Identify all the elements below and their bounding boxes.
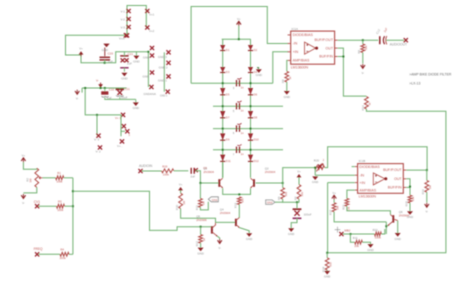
node X FREQ <box>34 247 43 256</box>
transistor Q6 <box>388 210 410 226</box>
potentiometer R2 <box>25 168 42 187</box>
svg-text:D1: D1 <box>226 48 230 52</box>
svg-text:D9: D9 <box>226 138 230 142</box>
svg-text:D10: D10 <box>254 138 260 142</box>
svg-text:V+: V+ <box>179 183 183 187</box>
svg-text:GND: GND <box>367 248 373 252</box>
svg-text:V+: V+ <box>332 191 336 195</box>
capacitor C6 <box>233 123 244 135</box>
svg-text:100k: 100k <box>57 208 64 212</box>
svg-text:R4: R4 <box>60 248 64 252</box>
node X V-1 <box>121 9 131 14</box>
capacitor C11 electrolytic <box>116 87 130 99</box>
svg-text:1M: 1M <box>202 201 206 206</box>
node X GND 2 <box>159 61 171 70</box>
svg-text:D6: D6 <box>254 92 258 96</box>
IC1B pin BUF/FIN <box>388 186 406 190</box>
svg-text:GN1: GN1 <box>212 198 218 202</box>
wire q2 base <box>256 182 283 184</box>
svg-text:GND: GND <box>312 180 318 184</box>
svg-text:100k: 100k <box>56 180 63 184</box>
ground R12 <box>197 248 203 256</box>
resistor R19 <box>162 164 174 176</box>
resistor R3 <box>57 200 65 212</box>
junction Q1 base <box>199 182 201 184</box>
wire ladder left column <box>222 39 224 178</box>
svg-text:GND: GND <box>324 275 330 279</box>
node X GNDA2 <box>150 53 154 57</box>
ground stub at x136 <box>133 52 139 64</box>
svg-text:V+ 1: V+ 1 <box>115 116 121 120</box>
svg-text:1M: 1M <box>29 178 33 183</box>
svg-text:-IN: -IN <box>293 42 298 46</box>
IC1A pin BUF/FIN <box>319 55 337 59</box>
wire R11 to flag <box>200 202 208 210</box>
wire V+ stub bus <box>85 88 121 115</box>
svg-text:R16: R16 <box>421 189 425 195</box>
wire GND column B <box>163 52 165 91</box>
wire r15 gnd <box>409 203 411 211</box>
wire emitter rail <box>223 188 251 194</box>
svg-text:DIODE/BIAS: DIODE/BIAS <box>359 165 380 169</box>
wire trimmer run <box>283 147 427 183</box>
svg-text:V+1: V+1 <box>149 13 155 17</box>
junction R9 <box>362 39 364 41</box>
svg-text:AMP/BIAS: AMP/BIAS <box>359 188 376 192</box>
svg-text:GND: GND <box>133 106 139 110</box>
transistor Q1 <box>203 167 223 189</box>
resistor R10 <box>175 193 186 210</box>
wire V+ stem <box>238 26 240 39</box>
resistor R9 <box>357 40 368 53</box>
svg-text:200k: 200k <box>60 256 67 260</box>
svg-text:1M: 1M <box>428 185 432 190</box>
svg-text:>LX-13: >LX-13 <box>409 81 420 85</box>
supply V- chevron left <box>75 90 79 101</box>
ground R23 <box>367 244 373 252</box>
svg-text:LM13600N: LM13600N <box>359 194 377 198</box>
svg-text:10uF: 10uF <box>121 95 128 99</box>
ground GND above C20 <box>102 44 110 57</box>
svg-text:R6: R6 <box>293 196 297 200</box>
capacitor C12 output <box>375 27 389 45</box>
wire rung1 <box>191 52 288 83</box>
resistor R21 <box>341 199 350 212</box>
svg-text:GND: GND <box>256 73 262 77</box>
IC1A pin BUF/P.OUT <box>315 38 338 42</box>
ground rail right <box>133 99 139 110</box>
wire q5 emitter <box>217 236 219 239</box>
junction buf fin <box>342 56 344 58</box>
svg-text:R15: R15 <box>404 201 408 207</box>
wire amp/bias to R8 <box>286 60 289 71</box>
junction stub bus <box>84 87 98 116</box>
wire q6 emitter <box>386 221 397 233</box>
svg-text:CV1: CV1 <box>34 200 40 204</box>
svg-text:R8: R8 <box>281 79 285 83</box>
svg-text:V-: V- <box>425 210 428 214</box>
svg-text:2M: 2M <box>335 205 339 210</box>
svg-text:AMP/BIAS: AMP/BIAS <box>293 59 310 63</box>
wire ampbias b <box>347 190 355 198</box>
wire rung3 <box>213 128 283 130</box>
supply V+ divider <box>297 170 302 180</box>
diode D1 <box>220 45 230 52</box>
svg-text:C11: C11 <box>125 87 130 91</box>
resistor R4 <box>60 248 69 261</box>
wire r16 vminus <box>426 192 428 202</box>
wire OUT down chain <box>338 48 367 96</box>
wire R1 out <box>64 177 73 179</box>
wire rung2 <box>213 105 283 107</box>
ground q6 <box>394 233 400 241</box>
svg-text:V-: V- <box>96 78 99 82</box>
svg-text:56k: 56k <box>284 191 288 196</box>
wire feedback long <box>327 109 446 253</box>
svg-text:1n: 1n <box>241 152 245 156</box>
svg-text:BUF/FIN: BUF/FIN <box>319 55 333 59</box>
svg-text:D2: D2 <box>254 48 258 52</box>
IC1A part label <box>291 66 309 70</box>
wire r22 left <box>350 229 384 234</box>
IC1B pin DIODE/BIAS <box>355 165 381 169</box>
supply V+ symbol (input rail) <box>79 47 84 57</box>
ground R8 <box>284 91 290 99</box>
svg-text:+IN: +IN <box>359 181 365 185</box>
junction rung3 <box>222 128 252 130</box>
svg-text:2N3904: 2N3904 <box>203 170 214 174</box>
supply V+ ladder top <box>237 17 241 26</box>
supply V- arrow on row <box>96 78 103 87</box>
junction C20 tap <box>104 62 106 64</box>
wire cv1 <box>39 205 57 207</box>
wire IC1B out join <box>406 179 410 195</box>
wire audioin2 <box>174 170 189 172</box>
resistor R16 <box>421 170 432 194</box>
wire q4 collector <box>238 216 240 218</box>
node X AUDIOOUT <box>390 38 408 46</box>
svg-text:V-: V- <box>22 201 25 205</box>
diode D4 <box>248 67 258 74</box>
svg-text:GND 1: GND 1 <box>160 95 168 98</box>
svg-text:V-: V- <box>76 97 79 101</box>
junction gnd col <box>147 51 149 53</box>
IC1A pin +IN <box>288 50 299 54</box>
junction C10 top <box>104 87 106 89</box>
node X GND 1 <box>158 74 171 82</box>
svg-text:R14: R14 <box>361 105 365 111</box>
svg-text:V-: V- <box>218 246 221 250</box>
wire cap bottom rail <box>104 98 136 100</box>
svg-text:V-2: V-2 <box>121 18 126 22</box>
svg-text:2N3906: 2N3906 <box>196 218 207 222</box>
wire bufpout stub <box>406 169 427 171</box>
wire ctrl run <box>73 191 211 230</box>
svg-text:OUT: OUT <box>326 46 334 50</box>
junction rung2 <box>222 105 252 107</box>
svg-text:V+: V+ <box>79 47 83 51</box>
svg-text:1M: 1M <box>182 200 186 205</box>
node X GNDA1 <box>143 46 154 60</box>
wire IC1B -IN wire <box>315 174 355 176</box>
IC1B part label <box>359 194 377 198</box>
capacitor C5 <box>233 101 244 113</box>
svg-text:1n: 1n <box>241 131 245 135</box>
svg-text:R3: R3 <box>58 200 62 204</box>
resistor R11 bias <box>195 183 206 210</box>
resistor R1 <box>56 171 64 183</box>
node X V-2 <box>121 17 131 22</box>
junction bus1 <box>72 190 74 192</box>
net flag GN2 <box>266 200 283 205</box>
svg-text:C20: C20 <box>108 52 114 56</box>
supply V+ R10 <box>178 183 183 193</box>
svg-text:GND: GND <box>284 95 290 99</box>
wire wiper <box>43 177 56 179</box>
wire stub right <box>121 115 125 136</box>
svg-text:1uF: 1uF <box>108 59 113 63</box>
svg-text:GND: GND <box>197 251 203 255</box>
junction trimmer <box>314 167 316 169</box>
svg-text:C21: C21 <box>128 52 134 56</box>
diode D6 <box>248 88 258 96</box>
svg-text:D5: D5 <box>226 92 230 96</box>
junction bufpout <box>426 169 428 171</box>
op-amp IC1A box <box>291 27 335 64</box>
wire pot top <box>23 162 36 169</box>
svg-text:BUF/P.OUT: BUF/P.OUT <box>383 168 402 172</box>
svg-text:GND: GND <box>143 56 149 60</box>
capacitor C3 <box>233 78 244 90</box>
node X V-4 <box>94 134 101 142</box>
svg-text:V-1: V-1 <box>121 10 126 14</box>
wire r10 to q5 collector <box>181 209 216 223</box>
svg-text:D12: D12 <box>254 159 260 163</box>
resistor R23 20k <box>350 234 362 248</box>
svg-text:V- 3: V- 3 <box>94 138 100 142</box>
svg-text:100: 100 <box>240 198 244 203</box>
svg-text:GND: GND <box>121 77 127 81</box>
capacitor C13 divider <box>291 202 312 228</box>
junction rung4 <box>222 149 252 151</box>
resistor R8 <box>281 71 292 83</box>
wire trimmer gnd stub <box>314 168 316 176</box>
origin cross <box>335 227 341 233</box>
wire freq <box>39 253 60 255</box>
resistor R17 <box>329 200 340 215</box>
junction mb2 <box>349 233 351 235</box>
wire feedback loop top <box>191 7 288 84</box>
junction ladder top <box>238 38 240 40</box>
transistor Q5 <box>196 214 217 236</box>
transistor Q2 <box>250 167 275 189</box>
svg-text:R12: R12 <box>195 241 199 247</box>
transistor Q4 <box>220 208 240 228</box>
svg-text:FREQ: FREQ <box>34 247 43 251</box>
svg-text:D8: D8 <box>254 115 258 119</box>
svg-text:2N3904: 2N3904 <box>220 211 231 215</box>
supply V- pot <box>21 194 25 205</box>
svg-text:V-3: V-3 <box>121 26 126 30</box>
node X GNDA3 <box>143 70 155 78</box>
wire IC1B diode/bias stub <box>352 166 355 168</box>
svg-text:R5: R5 <box>277 196 281 200</box>
wire audioin <box>142 170 162 172</box>
svg-text:R21: R21 <box>341 204 345 210</box>
supply V+ R17 <box>332 191 336 200</box>
junction q2 base <box>282 182 284 184</box>
svg-text:R13: R13 <box>234 202 238 208</box>
svg-text:1uF: 1uF <box>127 62 132 66</box>
svg-text:220k: 220k <box>375 235 382 239</box>
svg-text:2N3906: 2N3906 <box>399 214 410 218</box>
diode D5 <box>220 88 230 96</box>
svg-text:100uF: 100uF <box>304 212 312 216</box>
wire r4 out <box>69 253 73 255</box>
svg-text:BUF/P.OUT: BUF/P.OUT <box>315 38 334 42</box>
node X V+5 <box>115 113 125 120</box>
node X V+6 <box>122 124 126 128</box>
node X V+4 <box>125 33 129 37</box>
svg-text:LM13600N: LM13600N <box>291 66 309 70</box>
resistor R5 <box>277 183 288 200</box>
svg-text:GND: GND <box>133 59 139 63</box>
title text <box>409 73 452 86</box>
diode D11 <box>220 155 231 163</box>
op-amp IC1B box <box>358 159 404 193</box>
op-amp IC1A triangle <box>305 42 319 54</box>
ground below C21 <box>121 73 127 81</box>
svg-text:+IN: +IN <box>293 50 299 54</box>
capacitor C9 input <box>190 166 207 178</box>
ground trimmer <box>312 176 318 184</box>
svg-text:500: 500 <box>328 262 332 267</box>
IC1A pin DIODE/BIAS <box>288 33 314 37</box>
supply V+ pot <box>21 153 25 162</box>
svg-text:C10: C10 <box>109 88 115 92</box>
svg-text:50k: 50k <box>364 45 368 50</box>
wire r10 top <box>180 190 182 193</box>
supply V- q5 <box>218 239 222 250</box>
wire V+ rail top-left loop <box>66 35 149 63</box>
svg-text:GND: GND <box>288 232 294 236</box>
supply V- R16 <box>425 203 429 214</box>
op-amp IC1B triangle <box>373 173 387 185</box>
wire audioin3 <box>195 171 218 183</box>
node X V+ rail endpoint <box>119 33 128 40</box>
svg-text:10k: 10k <box>411 196 415 201</box>
svg-text:AUDIOIN: AUDIOIN <box>139 164 153 168</box>
trimmer R20 <box>314 158 325 171</box>
supply V- R9 <box>361 64 365 75</box>
IC1A pin -IN <box>288 42 298 46</box>
junction divider <box>296 201 298 203</box>
diode D9 <box>220 133 230 141</box>
capacitor C21 <box>120 52 133 72</box>
wire r18 gnd <box>326 269 328 272</box>
capacitor C20 <box>100 52 114 64</box>
svg-text:D7: D7 <box>226 115 230 119</box>
svg-text:V+2: V+2 <box>149 29 155 33</box>
svg-text:V+...: V+... <box>117 144 123 148</box>
IC1A pin OUT <box>326 46 338 50</box>
svg-text:>AMP BIKE DIODE FILTER: >AMP BIKE DIODE FILTER <box>409 73 452 77</box>
svg-text:V+: V+ <box>22 153 26 157</box>
svg-text:-IN: -IN <box>359 173 364 177</box>
wire r12 gnd <box>200 243 202 248</box>
IC1B pin BUF/P.OUT <box>383 168 406 172</box>
svg-text:R17: R17 <box>329 209 333 215</box>
node X V+8 <box>117 139 124 148</box>
svg-text:1n: 1n <box>241 85 245 89</box>
svg-text:100k: 100k <box>163 172 170 176</box>
ground stub ladder right <box>256 67 262 77</box>
resistor R13 tail <box>234 197 245 208</box>
wire r8 gnd <box>286 82 288 91</box>
svg-text:56k: 56k <box>300 191 304 196</box>
node X GND 3 <box>158 50 171 59</box>
wire r17 run <box>334 212 386 234</box>
wire tail to Q4 <box>238 205 240 218</box>
svg-text:R9: R9 <box>357 50 361 54</box>
node X CV1 <box>34 200 40 209</box>
node X V+1 <box>145 9 154 17</box>
svg-text:DIODE/BIAS: DIODE/BIAS <box>293 33 314 37</box>
svg-text:IC1A: IC1A <box>291 27 298 31</box>
node X GNDA4 <box>149 85 153 89</box>
node X MB2 <box>339 228 350 236</box>
svg-text:AUDIOOUT: AUDIOOUT <box>390 42 407 46</box>
resistor R15 <box>404 195 415 206</box>
wire supply stub rectangle <box>127 6 146 36</box>
resistor R22 220k <box>373 228 382 239</box>
svg-text:R10: R10 <box>175 204 179 210</box>
diode D12 <box>248 155 259 163</box>
wire ladder right column <box>250 39 252 178</box>
svg-text:1n: 1n <box>241 108 245 112</box>
wire pot bottom <box>23 187 36 193</box>
svg-text:V+A: V+A <box>119 37 125 41</box>
svg-text:R1: R1 <box>57 171 61 175</box>
junction ctrl node <box>200 226 202 228</box>
svg-text:2uF: 2uF <box>190 175 195 179</box>
ground R18 <box>324 271 330 279</box>
svg-text:R19: R19 <box>162 164 168 168</box>
wire stub down <box>96 115 98 136</box>
wire ladder top <box>222 38 251 40</box>
wire r3 out <box>65 205 73 207</box>
wire r21 to q6 <box>347 206 391 214</box>
diode D8 <box>248 111 258 119</box>
svg-text:OUT: OUT <box>394 177 402 181</box>
resistor R18 <box>322 253 333 272</box>
diode D7 <box>220 111 230 119</box>
svg-text:R11: R11 <box>195 205 199 210</box>
svg-text:V-: V- <box>361 71 364 75</box>
svg-text:GN2: GN2 <box>267 201 273 205</box>
IC1B pin AMP/BIAS <box>355 188 377 192</box>
node X V-3 <box>121 25 131 30</box>
svg-text:R11: R11 <box>353 236 358 240</box>
svg-text:2N3904: 2N3904 <box>265 170 276 174</box>
svg-text:GND: GND <box>143 75 149 79</box>
IC1A pin AMP/BIAS <box>288 59 310 63</box>
node X V+2 <box>145 25 154 33</box>
svg-text:R20: R20 <box>314 158 320 162</box>
wire +IN riser <box>328 183 355 253</box>
resistor R6 <box>293 177 304 200</box>
svg-text:D11: D11 <box>226 159 231 163</box>
